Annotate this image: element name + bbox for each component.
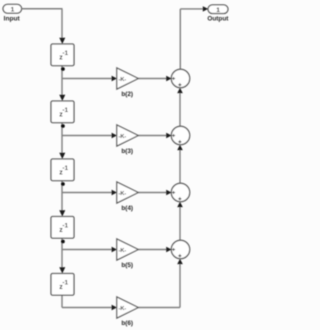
svg-text:1: 1 (216, 7, 220, 14)
svg-text:1: 1 (11, 6, 15, 13)
svg-text:-1: -1 (62, 222, 68, 229)
svg-text:b(4): b(4) (121, 205, 133, 212)
svg-text:-K-: -K- (119, 306, 127, 312)
svg-text:b(6): b(6) (121, 320, 133, 327)
svg-text:-1: -1 (62, 279, 68, 286)
svg-text:Output: Output (207, 15, 229, 22)
svg-text:b(5): b(5) (121, 262, 133, 269)
svg-text:-K-: -K- (119, 248, 127, 254)
svg-text:b(3): b(3) (121, 148, 133, 155)
svg-text:Input: Input (4, 15, 21, 22)
svg-text:-K-: -K- (119, 77, 127, 83)
svg-text:-1: -1 (62, 165, 68, 172)
svg-text:b(2): b(2) (121, 91, 133, 98)
svg-text:-1: -1 (62, 50, 68, 57)
svg-text:-K-: -K- (119, 134, 127, 140)
svg-text:-1: -1 (62, 107, 68, 114)
svg-text:-K-: -K- (119, 191, 127, 197)
